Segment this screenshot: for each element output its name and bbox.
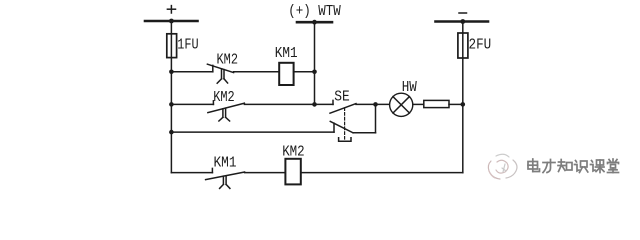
svg-text:(+) WTW: (+) WTW xyxy=(288,3,341,20)
svg-text:1FU: 1FU xyxy=(177,36,198,53)
svg-text:2FU: 2FU xyxy=(469,37,492,54)
svg-text:SE: SE xyxy=(334,89,350,106)
svg-text:KM2: KM2 xyxy=(282,144,305,161)
svg-text:KM1: KM1 xyxy=(275,45,298,62)
svg-text:KM2: KM2 xyxy=(213,89,235,106)
svg-text:HW: HW xyxy=(402,79,417,96)
svg-text:KM1: KM1 xyxy=(214,155,237,172)
svg-text:KM2: KM2 xyxy=(217,52,239,69)
